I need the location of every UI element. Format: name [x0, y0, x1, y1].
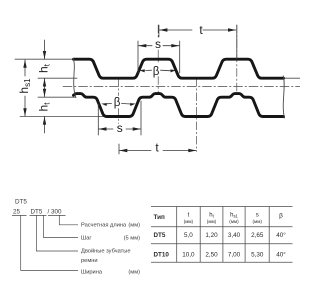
- wire: underline of part number: [12, 214, 66, 216]
- svg-text:s: s: [117, 121, 123, 135]
- svg-text:ht: ht: [36, 102, 51, 112]
- dimension h_t (top): outside arrows at x=44.5: [44, 40, 46, 133]
- svg-text:β: β: [153, 66, 160, 78]
- svg-text:(мм): (мм): [207, 219, 217, 224]
- svg-text:hs1: hs1: [17, 78, 32, 94]
- dimension s (top): line y=45.7: [138, 41, 180, 73]
- wire: column separator 2: [199, 207, 201, 263]
- svg-text:Двойные зубчатые: Двойные зубчатые: [81, 248, 131, 255]
- svg-text:DT5: DT5: [154, 232, 166, 239]
- svg-text:Ширина: Ширина: [81, 270, 103, 276]
- svg-text:ht: ht: [36, 63, 51, 73]
- svg-text:t: t: [188, 213, 190, 219]
- wire: column separator 3: [222, 207, 224, 263]
- svg-text:40°: 40°: [276, 231, 286, 239]
- wire: table header separator: [151, 226, 293, 228]
- svg-text:7,00: 7,00: [228, 252, 241, 259]
- svg-text:ремни: ремни: [81, 258, 98, 264]
- svg-text:Расчетная длина: Расчетная длина: [81, 223, 127, 229]
- specification table: [151, 207, 293, 263]
- wire: table row separator: [151, 243, 293, 245]
- wire: left break line of belt: [73, 58, 76, 97]
- belt top profile (bold): [74, 59, 284, 78]
- node: centerline of top tooth 3: [236, 25, 238, 93]
- wire: leader to width: [21, 215, 78, 270]
- part number legend block: [12, 199, 140, 276]
- svg-text:t: t: [155, 141, 159, 155]
- dimension t (top): line y=30: [159, 25, 237, 59]
- wire: table top border: [151, 206, 293, 208]
- svg-text:(мм): (мм): [184, 219, 194, 224]
- wire: leader to double toothed belts: [36, 215, 78, 251]
- svg-text:DT5: DT5: [31, 209, 43, 216]
- svg-text:hs1: hs1: [230, 213, 238, 219]
- svg-text:25: 25: [13, 209, 21, 216]
- wire: leader to pitch: [44, 215, 78, 237]
- wire: right break line of belt: [283, 76, 284, 118]
- svg-text:(мм): (мм): [128, 223, 140, 229]
- wire: thin extension line top valley level left: [38, 77, 77, 79]
- wire: thin extension line bottom surface level left: [38, 96, 76, 98]
- svg-text:s: s: [155, 37, 161, 51]
- wire: thin extension line bottom tooth level left: [20, 115, 104, 117]
- svg-text:10,0: 10,0: [182, 252, 195, 259]
- wire: leader to calculated length: [59, 215, 78, 224]
- svg-text:(мм): (мм): [253, 219, 263, 224]
- node: centerline of bottom tooth 1: [118, 78, 120, 123]
- svg-text:s: s: [256, 213, 259, 219]
- svg-text:5,0: 5,0: [184, 232, 193, 239]
- svg-text:DT10: DT10: [154, 252, 170, 259]
- angle beta (top tooth 2): [146, 69, 171, 72]
- wire: horizontal belt centerline dash-dot: [63, 86, 300, 88]
- belt bottom profile (bold): [74, 94, 284, 117]
- wire: thin extension line tooth-top level left: [15, 58, 76, 60]
- svg-text:40°: 40°: [276, 251, 286, 259]
- svg-text:β: β: [279, 213, 283, 220]
- svg-text:β: β: [114, 97, 121, 109]
- svg-text:3,40: 3,40: [228, 232, 241, 239]
- dimension h_s1: vertical line x=25: [24, 60, 26, 116]
- svg-text:Тип: Тип: [154, 214, 165, 221]
- svg-text:DT5: DT5: [15, 199, 27, 206]
- wire: column separator 5: [268, 207, 270, 263]
- svg-text:2,65: 2,65: [251, 232, 264, 239]
- dimension t (bottom): line y=150.5: [119, 144, 196, 154]
- wire: column separator 4: [244, 207, 246, 263]
- svg-text:Шаг: Шаг: [81, 235, 91, 241]
- dimension s (bottom): line y=129: [98, 101, 141, 135]
- svg-text:(мм): (мм): [128, 270, 140, 276]
- svg-text:(мм): (мм): [229, 219, 239, 224]
- wire: column separator 1: [176, 207, 178, 263]
- wire: table bottom border: [151, 261, 293, 263]
- angle beta (bottom tooth 1): [107, 102, 130, 105]
- svg-text:ht: ht: [209, 213, 214, 219]
- node: centerline of bottom tooth 2: [196, 78, 198, 151]
- svg-text:(5 мм): (5 мм): [124, 235, 140, 241]
- svg-text:1,20: 1,20: [205, 232, 218, 239]
- wire: thin valley line extending right of break: [283, 77, 300, 79]
- svg-text:5,30: 5,30: [251, 252, 264, 259]
- svg-text:/ 300: / 300: [48, 209, 63, 216]
- svg-text:2,50: 2,50: [205, 252, 218, 259]
- node: centerline of top tooth 2: [157, 25, 159, 93]
